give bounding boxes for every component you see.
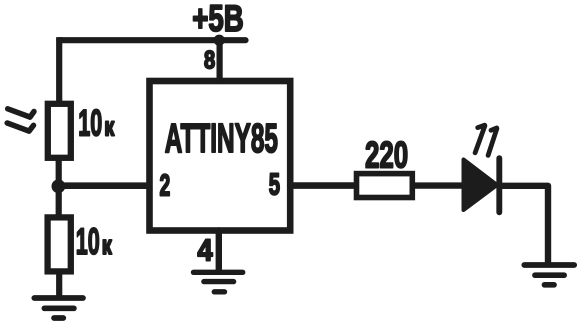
- label R1 value 10k: [78, 102, 114, 144]
- svg-text:10: 10: [78, 102, 102, 144]
- wire left drop from rail to R1: [56, 40, 62, 102]
- LED D1 cathode bar: [496, 158, 502, 212]
- svg-text:к: к: [102, 231, 112, 260]
- photoresistor light arrow 1: [8, 109, 34, 117]
- svg-text:к: к: [104, 112, 114, 141]
- svg-text:8: 8: [204, 47, 215, 75]
- pin 8 stub wire: [217, 42, 223, 81]
- LED light arrow 2: [488, 128, 497, 155]
- svg-text:+5В: +5В: [192, 0, 243, 39]
- wire junction down to R2: [56, 186, 62, 216]
- svg-text:ATTINY85: ATTINY85: [165, 117, 278, 162]
- wire IC pin 5 to R3: [290, 182, 355, 189]
- wire junction to IC pin 2: [59, 182, 149, 189]
- resistor R3 220: [357, 174, 413, 198]
- wire R2 bottom to ground: [56, 274, 62, 296]
- wire LED cathode to right ground: [501, 186, 549, 262]
- ground symbol left: [34, 298, 83, 318]
- svg-text:2: 2: [160, 169, 171, 202]
- LED D1 triangle: [464, 160, 498, 211]
- pin 4 stub wire: [216, 231, 222, 271]
- photoresistor light arrow 2: [7, 123, 33, 131]
- label R2 value 10k: [76, 221, 112, 263]
- ground symbol at IC pin 4: [194, 272, 243, 292]
- svg-text:10: 10: [76, 221, 100, 263]
- svg-text:5: 5: [269, 168, 280, 201]
- resistor R2 10k: [48, 217, 71, 271]
- node A junction dot: [52, 179, 66, 193]
- ground symbol right: [524, 265, 574, 285]
- IC U1 ATTINY85 body: [150, 81, 291, 231]
- resistor R1 10k: [48, 104, 71, 158]
- node +5V junction dot: [214, 35, 225, 46]
- wire R3 to LED anode: [415, 182, 465, 188]
- svg-text:4: 4: [198, 234, 213, 268]
- wire +5V rail: [59, 37, 245, 43]
- wire R1 bottom to junction node: [56, 160, 62, 188]
- svg-text:220: 220: [365, 134, 408, 176]
- LED light arrow 1: [475, 125, 485, 153]
